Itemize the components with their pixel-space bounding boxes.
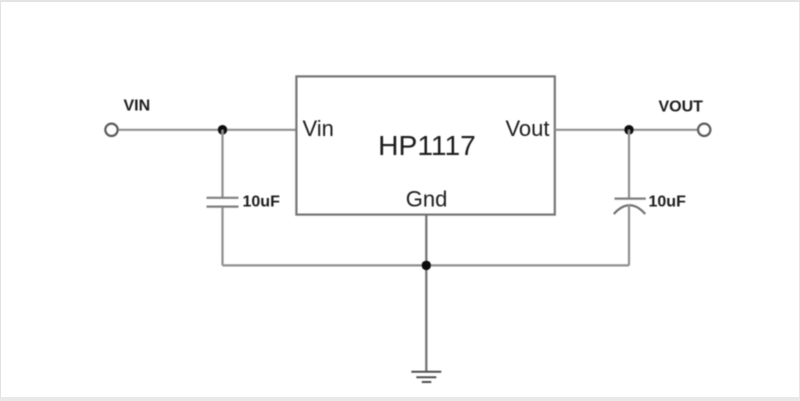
wire: junction down to C2 top plate [628,130,630,198]
wire: VIN terminal to Vin pin [119,129,296,131]
ground rail wire [223,264,630,266]
terminal VOUT (open circle) [698,124,710,136]
svg-text:HP1117: HP1117 [378,129,476,161]
wire: C1 bottom plate down to ground rail [221,208,223,266]
svg-text:VIN: VIN [124,98,151,115]
svg-text:Gnd: Gnd [406,187,448,212]
wire: junction down to C1 top plate [221,130,223,197]
capacitor C1 (10uF input) plates [207,197,239,199]
wire: C2 curved plate down to ground rail [628,205,630,266]
svg-text:10uF: 10uF [243,194,281,211]
wire: Vout pin to VOUT terminal [555,129,698,131]
svg-text:Vout: Vout [505,116,549,141]
svg-text:VOUT: VOUT [659,99,704,116]
junction node at output cap [624,125,634,135]
ground symbol [411,372,441,382]
junction node at ground rail [422,261,432,271]
capacitor C2 curved plate [614,205,645,214]
capacitor C2 (10uF output, polarized) top plate [615,198,646,200]
svg-text:Vin: Vin [303,116,334,141]
op-amp U1 regulator HP1117 body [296,76,554,214]
junction node at input cap [218,125,228,135]
wire: Gnd pin down to ground rail and ground symbol [425,215,427,372]
terminal VIN (open circle) [105,124,117,136]
svg-text:10uF: 10uF [649,194,687,211]
